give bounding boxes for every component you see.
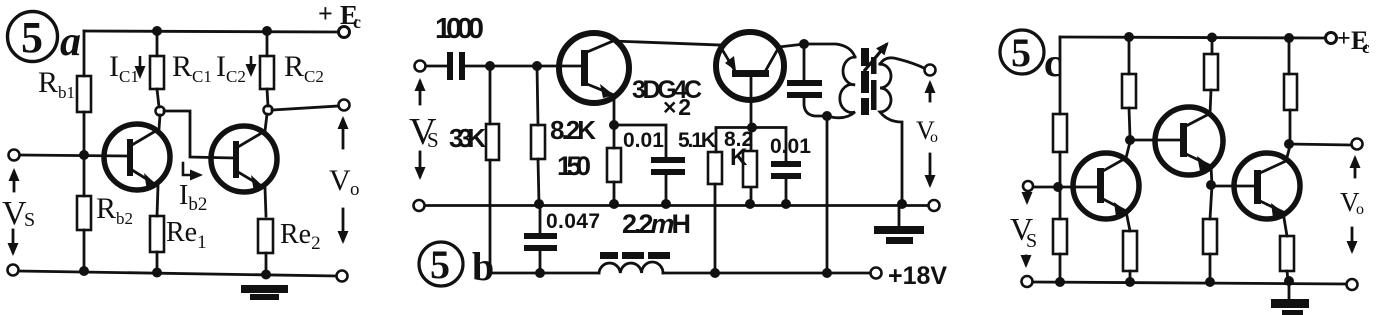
svg-text:b: b xyxy=(472,244,494,289)
svg-text:5.1K: 5.1K xyxy=(678,129,716,152)
svg-text:150: 150 xyxy=(557,151,591,181)
svg-text:33K: 33K xyxy=(449,123,486,153)
svg-text:Re2: Re2 xyxy=(280,219,321,254)
svg-text:IC2: IC2 xyxy=(216,50,246,86)
svg-text:5: 5 xyxy=(21,13,43,62)
svg-text:a: a xyxy=(60,19,81,65)
svg-text:Re1: Re1 xyxy=(166,217,207,253)
svg-text:IC1: IC1 xyxy=(109,50,139,86)
svg-text:+: + xyxy=(318,0,333,28)
svg-text:0.01: 0.01 xyxy=(623,129,664,152)
svg-text:1000: 1000 xyxy=(435,13,484,45)
svg-text:0.01: 0.01 xyxy=(770,135,811,158)
svg-text:o: o xyxy=(350,179,360,200)
svg-text:K: K xyxy=(730,144,748,171)
svg-text:Rb2: Rb2 xyxy=(96,192,133,228)
svg-text:o: o xyxy=(1356,201,1364,218)
svg-text:c: c xyxy=(1044,40,1062,85)
svg-text:Rb1: Rb1 xyxy=(38,66,75,102)
svg-text:+18V: +18V xyxy=(888,262,947,290)
svg-text:o: o xyxy=(930,129,938,146)
svg-text:V: V xyxy=(329,164,351,197)
svg-text:2.2mH: 2.2mH xyxy=(622,209,691,239)
svg-text:Ib2: Ib2 xyxy=(179,180,207,215)
svg-text:c: c xyxy=(1362,38,1370,57)
svg-text:5: 5 xyxy=(430,242,450,287)
svg-text:RC1: RC1 xyxy=(172,50,212,86)
svg-text:S: S xyxy=(1026,230,1037,252)
svg-text:RC2: RC2 xyxy=(284,50,324,86)
svg-text:S: S xyxy=(24,209,35,231)
svg-text:c: c xyxy=(353,12,361,32)
svg-text:0.047: 0.047 xyxy=(546,210,600,233)
svg-text:5: 5 xyxy=(1011,30,1031,75)
svg-text:8.2K: 8.2K xyxy=(550,115,596,145)
svg-text:+: + xyxy=(1337,26,1351,52)
svg-text:S: S xyxy=(427,128,439,152)
